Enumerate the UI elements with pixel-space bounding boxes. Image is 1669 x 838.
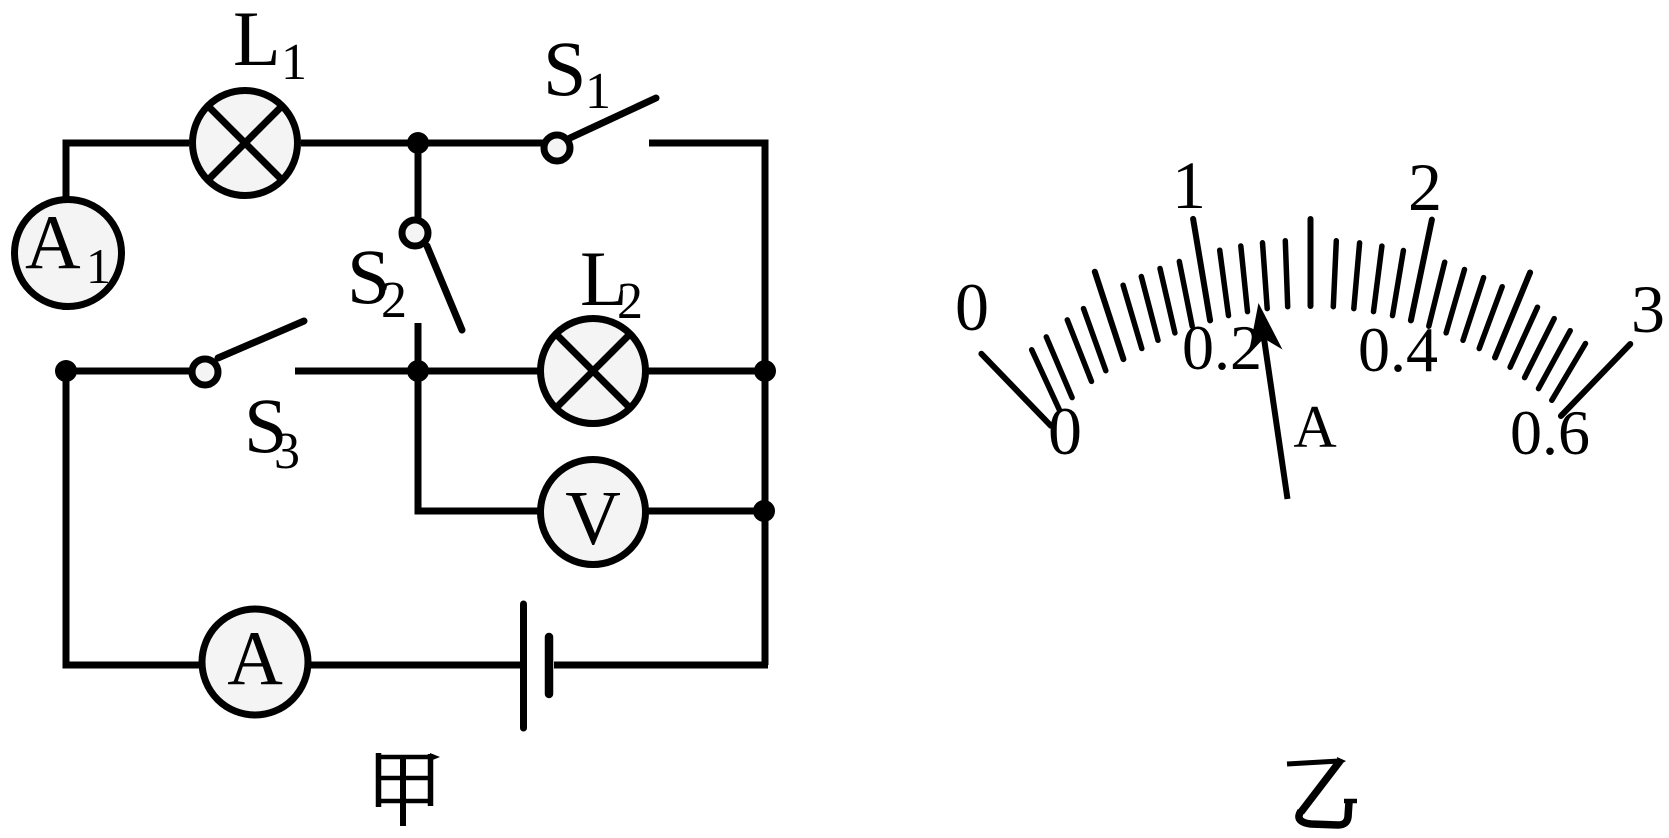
- svg-text:0: 0: [955, 269, 989, 345]
- svg-text:2: 2: [381, 272, 407, 329]
- node C (center junction): [407, 360, 429, 382]
- svg-text:S: S: [543, 25, 586, 112]
- wire: top rail from L1 to node A: [301, 140, 418, 147]
- svg-text:1: 1: [1172, 147, 1206, 223]
- wire: L2 to right rail: [645, 368, 765, 375]
- battery long plate (+): [520, 604, 527, 728]
- scale tick 1.6 (minor): [1333, 241, 1336, 307]
- svg-text:0.4: 0.4: [1358, 314, 1438, 385]
- ammeter A1: [15, 199, 122, 307]
- wire: S2 lower stub to middle rail: [415, 323, 422, 371]
- node B (left middle junction): [55, 360, 77, 382]
- scale tick 2.9 (minor): [1552, 344, 1586, 401]
- svg-text:3: 3: [1631, 271, 1665, 347]
- scale tick 0.2 (minor): [1046, 337, 1072, 398]
- scale tick 0.5 (medium): [1095, 272, 1124, 359]
- svg-text:1: 1: [585, 63, 611, 120]
- svg-text:3: 3: [274, 423, 300, 480]
- scale tick 2.5 (medium): [1495, 273, 1530, 358]
- scale tick 1.4 (minor): [1285, 241, 1287, 307]
- wire: voltmeter branch from node C down and right to V: [418, 371, 541, 511]
- wire: battery to bottom-right corner: [554, 662, 768, 669]
- label yi (乙): [1287, 761, 1357, 825]
- scale tick 2.3 (minor): [1463, 278, 1484, 341]
- svg-text:0.6: 0.6: [1510, 397, 1590, 468]
- switch S1 blade: [570, 98, 656, 138]
- scale tick 3.0 (major): [1561, 344, 1630, 416]
- switch S3 circle terminal: [192, 359, 218, 385]
- svg-text:0: 0: [1048, 393, 1082, 469]
- needle arrowhead: [1249, 303, 1283, 355]
- scale tick 1.2 (minor): [1241, 246, 1248, 312]
- svg-text:1: 1: [281, 34, 307, 91]
- svg-text:2: 2: [1408, 149, 1442, 225]
- lamp L2: [541, 319, 646, 424]
- switch S3 blade: [218, 321, 304, 358]
- scale tick 2.7 (minor): [1525, 319, 1555, 378]
- scale tick 2.0 (major): [1411, 220, 1432, 321]
- needle shaft: [1261, 318, 1288, 499]
- node D (right rail at L2 line): [754, 360, 776, 382]
- scale tick 1.5 (medium): [1308, 219, 1314, 306]
- wire: node C to lamp L2: [418, 368, 541, 375]
- scale tick 2.1 (minor): [1429, 262, 1445, 326]
- scale tick 2.2 (minor): [1446, 270, 1464, 333]
- scale tick 2.4 (minor): [1479, 287, 1502, 349]
- scale tick 1.8 (minor): [1374, 246, 1382, 312]
- battery short plate (-): [545, 637, 554, 694]
- wire: node A to switch S1: [418, 140, 543, 147]
- scale tick 1.0 (major): [1193, 219, 1210, 321]
- svg-text:V: V: [565, 475, 621, 561]
- wire: bottom left rail down and right to ammeter A: [66, 371, 202, 665]
- switch S2 circle terminal: [402, 220, 428, 246]
- svg-text:2: 2: [617, 273, 643, 330]
- svg-text:1: 1: [86, 238, 111, 294]
- scale tick 0.4 (minor): [1084, 309, 1106, 371]
- scale tick 1.9 (minor): [1393, 251, 1404, 316]
- scale tick 1.1 (minor): [1220, 250, 1229, 315]
- node E (right rail at V line): [753, 500, 775, 522]
- scale tick 1.3 (minor): [1263, 243, 1268, 309]
- wire: S2 branch vertical from node A: [415, 143, 422, 218]
- wire: middle rail left segment to S3: [66, 368, 191, 375]
- wire: top rail from left corner to lamp L1: [66, 143, 189, 310]
- scale tick 0.7 (minor): [1141, 277, 1158, 341]
- wire: S1 to top-right corner and right rail down: [649, 143, 765, 665]
- svg-text:A: A: [25, 199, 81, 285]
- wire: V to right rail: [645, 508, 765, 515]
- scale tick 0.9 (minor): [1179, 262, 1192, 327]
- scale tick 1.7 (minor): [1354, 243, 1360, 309]
- svg-text:A: A: [227, 615, 283, 701]
- node A (top junction): [407, 132, 429, 154]
- scale tick 0.8 (minor): [1160, 269, 1175, 333]
- svg-text:A: A: [1293, 394, 1336, 460]
- scale tick 2.8 (minor): [1539, 331, 1571, 389]
- wire: A to battery: [308, 662, 520, 669]
- ammeter A: [202, 609, 308, 715]
- scale tick 2.6 (minor): [1510, 307, 1537, 367]
- lamp L1: [193, 91, 298, 196]
- scale tick 0.6 (minor): [1123, 285, 1142, 348]
- label jia (甲): [376, 753, 434, 826]
- svg-text:L: L: [233, 0, 281, 82]
- scale tick 0.3 (minor): [1067, 320, 1091, 382]
- scale tick 0.0 (major): [981, 354, 1051, 426]
- scale tick 0.1 (minor): [1032, 350, 1060, 410]
- switch S2 blade: [427, 246, 462, 330]
- switch S1 circle terminal: [544, 135, 570, 161]
- wire: middle rail S3 to node C: [295, 368, 418, 375]
- voltmeter V: [541, 460, 646, 565]
